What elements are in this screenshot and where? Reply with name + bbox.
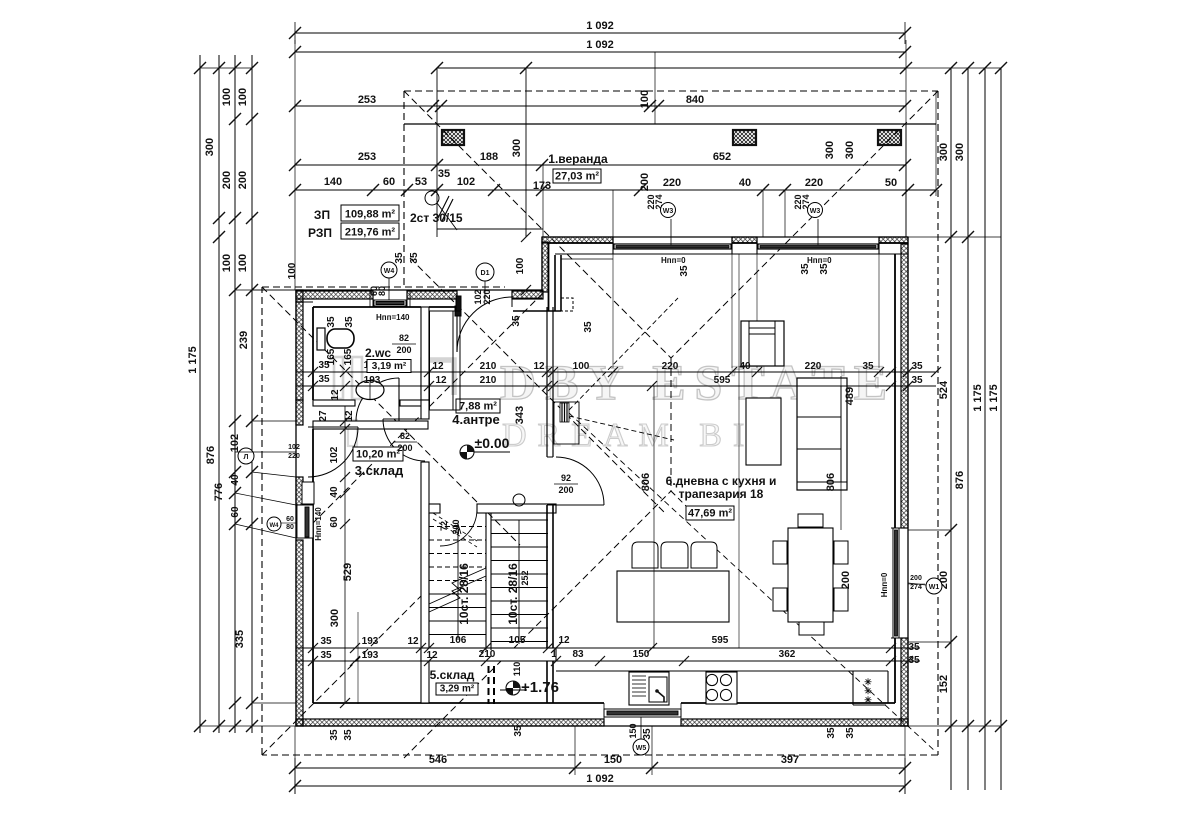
door post D1 bbox=[456, 296, 461, 311]
door size 92/200 living bbox=[554, 473, 578, 495]
svg-text:102: 102 bbox=[288, 444, 300, 451]
svg-text:150: 150 bbox=[604, 754, 622, 766]
svg-text:D1: D1 bbox=[481, 270, 490, 277]
svg-text:60: 60 bbox=[286, 516, 294, 523]
dim row 140/60/53/102/173/220/40/220/50 bbox=[289, 176, 942, 196]
svg-text:105: 105 bbox=[509, 635, 526, 646]
svg-text:150: 150 bbox=[633, 649, 650, 660]
svg-text:1 175: 1 175 bbox=[972, 384, 984, 412]
cooktop bbox=[706, 672, 737, 704]
svg-text:776: 776 bbox=[213, 483, 225, 501]
kitchen counter edge bbox=[556, 671, 888, 703]
dim row 253/840 bbox=[289, 90, 911, 191]
svg-text:1 175: 1 175 bbox=[988, 384, 1000, 412]
wall left exterior bbox=[296, 290, 313, 726]
svg-text:27: 27 bbox=[318, 410, 329, 422]
symbol W4 top bbox=[381, 262, 397, 278]
svg-text:200: 200 bbox=[221, 171, 233, 189]
svg-text:50: 50 bbox=[885, 177, 897, 189]
level mark 1.76 bbox=[500, 679, 559, 696]
label wc bbox=[365, 346, 411, 373]
svg-text:200: 200 bbox=[451, 519, 461, 534]
coffee table bbox=[746, 398, 781, 465]
interior dim row y372 bbox=[296, 360, 941, 377]
svg-text:220: 220 bbox=[663, 177, 681, 189]
svg-text:100: 100 bbox=[237, 88, 249, 106]
window W3 top left 220/274 bbox=[614, 244, 731, 249]
svg-text:92: 92 bbox=[561, 473, 571, 483]
label veranda bbox=[548, 152, 608, 183]
svg-text:300: 300 bbox=[329, 609, 341, 627]
interior vertical chain sklad bbox=[329, 406, 354, 708]
roof hip diagonal NW bbox=[404, 91, 671, 358]
door stairs dashed arc 72/200 bbox=[433, 509, 477, 547]
svg-text:4.антре: 4.антре bbox=[452, 412, 499, 427]
svg-text:200: 200 bbox=[396, 345, 411, 355]
svg-text:Hпп=0: Hпп=0 bbox=[880, 572, 889, 597]
svg-text:6.дневна с кухня и: 6.дневна с кухня и bbox=[666, 474, 777, 488]
svg-text:220: 220 bbox=[662, 361, 679, 372]
stair labels bbox=[439, 519, 530, 624]
svg-text:100: 100 bbox=[237, 254, 249, 272]
svg-text:80: 80 bbox=[377, 286, 387, 296]
svg-text:1 092: 1 092 bbox=[586, 773, 614, 785]
interior dim row y385 bbox=[296, 374, 936, 401]
dining table bbox=[788, 528, 833, 622]
dim row 253/188/652 bbox=[289, 151, 911, 180]
veranda column middle bbox=[733, 130, 756, 145]
svg-text:193: 193 bbox=[364, 375, 381, 386]
kitchen sink unit bbox=[629, 672, 669, 705]
svg-text:W4: W4 bbox=[384, 268, 395, 275]
svg-text:210: 210 bbox=[480, 375, 497, 386]
svg-text:220: 220 bbox=[805, 361, 822, 372]
left dim labels bbox=[187, 88, 250, 648]
svg-text:109,88 m²: 109,88 m² bbox=[345, 209, 395, 221]
svg-text:35: 35 bbox=[513, 725, 524, 737]
svg-text:102: 102 bbox=[329, 446, 340, 463]
svg-text:200: 200 bbox=[397, 443, 412, 453]
svg-text:1: 1 bbox=[551, 649, 557, 660]
svg-text:1.веранда: 1.веранда bbox=[548, 152, 608, 166]
svg-text:100: 100 bbox=[573, 361, 590, 372]
svg-text:193: 193 bbox=[362, 650, 379, 661]
rotated 35 labels bbox=[287, 194, 920, 740]
antre valley diagonal bbox=[410, 258, 665, 513]
svg-text:300: 300 bbox=[511, 139, 523, 157]
svg-text:3.склад: 3.склад bbox=[355, 463, 404, 478]
veranda column right bbox=[878, 130, 901, 145]
partition antre/living thin bbox=[547, 307, 553, 703]
svg-text:300: 300 bbox=[938, 143, 950, 161]
svg-text:252: 252 bbox=[520, 570, 530, 585]
staircase flights bbox=[429, 513, 548, 650]
svg-text:173: 173 bbox=[533, 180, 551, 192]
extension lines bbox=[200, 40, 1001, 794]
svg-text:7,88 m²: 7,88 m² bbox=[459, 401, 497, 413]
svg-text:150: 150 bbox=[628, 723, 638, 738]
dim row 546/150/397 bbox=[289, 754, 911, 774]
svg-text:35: 35 bbox=[908, 642, 920, 653]
flue dashed box top bbox=[561, 298, 573, 311]
svg-text:2.wc: 2.wc bbox=[365, 346, 391, 360]
svg-text:трапезария 18: трапезария 18 bbox=[679, 487, 764, 501]
symbol W4 left wall bbox=[267, 517, 281, 531]
svg-text:253: 253 bbox=[358, 94, 376, 106]
svg-text:806: 806 bbox=[640, 473, 652, 491]
wall sklad/stairs vertical bbox=[421, 462, 429, 703]
stair top circle symbol bbox=[513, 494, 525, 506]
symbol W1 right wall bbox=[926, 578, 942, 594]
svg-text:27,03 m²: 27,03 m² bbox=[555, 171, 599, 183]
svg-text:100: 100 bbox=[287, 262, 298, 279]
svg-text:165: 165 bbox=[343, 348, 354, 365]
svg-text:188: 188 bbox=[480, 151, 498, 163]
dim row y68 bbox=[431, 62, 912, 74]
svg-text:47,69 m²: 47,69 m² bbox=[688, 508, 732, 520]
svg-text:200: 200 bbox=[910, 575, 922, 582]
svg-text:40: 40 bbox=[230, 474, 241, 486]
svg-text:876: 876 bbox=[954, 471, 966, 489]
svg-text:102: 102 bbox=[229, 434, 241, 452]
island chair 3 bbox=[691, 542, 717, 568]
door wc arc bbox=[356, 378, 399, 421]
wall stairs bottom band bbox=[421, 648, 556, 661]
svg-text:100: 100 bbox=[515, 257, 526, 274]
toilet bbox=[317, 328, 354, 350]
svg-text:35: 35 bbox=[826, 727, 837, 739]
svg-text:40: 40 bbox=[329, 486, 340, 498]
svg-text:489: 489 bbox=[844, 387, 856, 405]
svg-text:ЗП: ЗП bbox=[314, 208, 330, 222]
svg-text:876: 876 bbox=[205, 446, 217, 464]
svg-text:806: 806 bbox=[825, 473, 837, 491]
roof hip arm SE short bbox=[671, 491, 700, 520]
svg-text:35: 35 bbox=[318, 374, 330, 385]
svg-text:✳: ✳ bbox=[864, 695, 872, 705]
label ZP RZP bbox=[308, 205, 463, 240]
svg-text:35: 35 bbox=[343, 729, 354, 741]
label antre bbox=[452, 399, 500, 427]
interior dim row y646 bbox=[296, 635, 920, 653]
svg-text:210: 210 bbox=[480, 361, 497, 372]
sklad5 dashed door opening bbox=[489, 666, 495, 704]
door size 82/200 wc bbox=[392, 333, 416, 355]
svg-text:100: 100 bbox=[221, 254, 233, 272]
left dim chain lines bbox=[194, 55, 258, 733]
dim row 1092 second bbox=[289, 39, 911, 58]
svg-text:35: 35 bbox=[845, 727, 856, 739]
svg-text:35: 35 bbox=[862, 361, 874, 372]
svg-text:210: 210 bbox=[479, 649, 496, 660]
svg-text:140: 140 bbox=[324, 176, 342, 188]
svg-text:12: 12 bbox=[432, 361, 444, 372]
svg-text:40: 40 bbox=[739, 177, 751, 189]
svg-text:35: 35 bbox=[911, 361, 923, 372]
interior dim row y659 bbox=[296, 649, 920, 666]
label sklad5 bbox=[430, 668, 478, 695]
label living bbox=[666, 474, 777, 520]
stair walk arrows bbox=[455, 520, 519, 644]
svg-text:W1: W1 bbox=[929, 584, 940, 591]
right dim chain lines bbox=[945, 62, 1007, 790]
svg-text:200: 200 bbox=[840, 571, 852, 589]
island chair 1 bbox=[632, 542, 658, 568]
island chair 2 bbox=[661, 542, 688, 568]
wall wc bottom A bbox=[313, 400, 429, 406]
svg-text:35: 35 bbox=[679, 265, 690, 277]
svg-text:83: 83 bbox=[572, 649, 584, 660]
window W1 right 200/274 bbox=[891, 528, 908, 638]
svg-text:Л: Л bbox=[244, 454, 249, 461]
window W4 wing top 60/80 bbox=[370, 291, 410, 307]
wall dim 35 porch bbox=[511, 315, 522, 327]
roof valley diagonal SW bbox=[404, 491, 671, 758]
svg-text:W3: W3 bbox=[810, 208, 821, 215]
svg-text:10ст. 28/16: 10ст. 28/16 bbox=[457, 563, 471, 625]
wing diagonal A bbox=[300, 293, 543, 536]
roof ridge bbox=[670, 358, 672, 491]
dining chairs bbox=[773, 514, 848, 635]
wall top main with window piers bbox=[542, 237, 908, 259]
svg-text:60: 60 bbox=[329, 516, 340, 528]
svg-text:3,19 m²: 3,19 m² bbox=[372, 361, 407, 372]
svg-text:35: 35 bbox=[320, 650, 332, 661]
svg-text:82: 82 bbox=[400, 431, 410, 441]
svg-text:+1.76: +1.76 bbox=[521, 679, 559, 696]
svg-text:102: 102 bbox=[457, 176, 475, 188]
svg-text:595: 595 bbox=[714, 375, 731, 386]
wall sklad top B bbox=[313, 421, 428, 429]
svg-text:335: 335 bbox=[234, 630, 246, 648]
symbol W3 left bbox=[661, 203, 676, 218]
wall antre/sklad vertical bbox=[421, 400, 429, 419]
roof corner hip SW bbox=[262, 588, 429, 755]
svg-text:12: 12 bbox=[330, 389, 341, 401]
svg-text:10ст. 28/16: 10ст. 28/16 bbox=[506, 563, 520, 625]
svg-text:35: 35 bbox=[344, 316, 355, 328]
svg-text:35: 35 bbox=[326, 316, 337, 328]
svg-text:165: 165 bbox=[326, 348, 337, 365]
svg-text:Hпп=0: Hпп=0 bbox=[807, 256, 832, 265]
stair break line bbox=[429, 568, 486, 612]
wall wc/antre vertical bbox=[421, 307, 429, 400]
symbol door left wall bbox=[238, 448, 254, 464]
svg-text:220: 220 bbox=[482, 289, 492, 304]
svg-text:РЗП: РЗП bbox=[308, 226, 332, 240]
svg-text:1 092: 1 092 bbox=[586, 20, 614, 32]
kitchen island table bbox=[617, 571, 729, 622]
svg-text:35: 35 bbox=[438, 168, 450, 180]
dim row 1092 top bbox=[289, 20, 911, 44]
wall right exterior bbox=[895, 237, 908, 726]
sofa bbox=[797, 378, 847, 490]
fan dashed lines at sliding door bbox=[569, 298, 936, 752]
svg-text:652: 652 bbox=[713, 151, 731, 163]
svg-text:152: 152 bbox=[938, 675, 950, 693]
svg-text:2ст 30/15: 2ст 30/15 bbox=[410, 211, 463, 225]
roof overhang dashed outline bbox=[262, 91, 938, 755]
door size 82/200 sklad bbox=[393, 431, 417, 453]
svg-text:35: 35 bbox=[409, 252, 420, 264]
svg-text:100: 100 bbox=[221, 88, 233, 106]
symbol W3 right bbox=[808, 203, 823, 218]
svg-text:12: 12 bbox=[533, 361, 545, 372]
svg-text:Hпп=140: Hпп=140 bbox=[314, 507, 323, 541]
svg-text:Hпп=140: Hпп=140 bbox=[376, 313, 410, 322]
svg-text:546: 546 bbox=[429, 754, 447, 766]
corner bar unit bbox=[853, 671, 886, 705]
door antre-living arc 92/200 bbox=[553, 457, 604, 505]
svg-text:±0.00: ±0.00 bbox=[475, 435, 510, 451]
svg-text:72: 72 bbox=[439, 521, 449, 531]
watermark logo bbox=[334, 357, 454, 446]
svg-text:220: 220 bbox=[805, 177, 823, 189]
symbol W5 bottom bbox=[633, 739, 649, 755]
svg-text:35: 35 bbox=[511, 315, 522, 327]
svg-text:343: 343 bbox=[514, 406, 526, 424]
svg-text:1 092: 1 092 bbox=[586, 39, 614, 51]
veranda column left bbox=[442, 130, 464, 145]
svg-text:300: 300 bbox=[204, 138, 216, 156]
wall stairs top bbox=[429, 504, 440, 513]
svg-text:300: 300 bbox=[954, 143, 966, 161]
svg-text:W5: W5 bbox=[636, 745, 647, 752]
interior vertical chain veranda 300 bbox=[511, 139, 856, 295]
svg-text:12: 12 bbox=[435, 375, 447, 386]
svg-text:12: 12 bbox=[558, 635, 570, 646]
svg-text:3,29 m²: 3,29 m² bbox=[440, 684, 475, 695]
svg-text:40: 40 bbox=[739, 361, 751, 372]
right dim labels bbox=[938, 143, 1000, 693]
svg-text:239: 239 bbox=[238, 331, 250, 349]
svg-text:362: 362 bbox=[779, 649, 796, 660]
door antre-sklad arc bbox=[383, 419, 425, 461]
window W5 bottom 150 bbox=[604, 703, 681, 719]
svg-text:10,20 m²: 10,20 m² bbox=[356, 449, 400, 461]
roof hip diagonal NE bbox=[671, 91, 938, 358]
svg-text:300: 300 bbox=[824, 141, 836, 159]
svg-text:80: 80 bbox=[286, 524, 294, 531]
svg-text:397: 397 bbox=[781, 754, 799, 766]
svg-text:35: 35 bbox=[911, 375, 923, 386]
window W4 left wall glazing bbox=[296, 505, 313, 538]
svg-text:1 175: 1 175 bbox=[187, 346, 199, 374]
symbol D1 bbox=[476, 263, 494, 281]
window W3 top right 220/274 bbox=[758, 244, 878, 249]
svg-text:12: 12 bbox=[407, 636, 419, 647]
svg-text:219,76 m²: 219,76 m² bbox=[345, 227, 395, 239]
wing diagonal B bbox=[262, 287, 520, 545]
svg-text:524: 524 bbox=[938, 380, 950, 399]
cabinet with grille bbox=[554, 402, 579, 444]
veranda slab edge bbox=[404, 124, 936, 237]
svg-text:300: 300 bbox=[844, 141, 856, 159]
svg-text:Hпп=0: Hпп=0 bbox=[661, 256, 686, 265]
svg-text:110: 110 bbox=[512, 662, 522, 677]
svg-text:193: 193 bbox=[362, 636, 379, 647]
closet antre bbox=[430, 306, 462, 410]
svg-text:35: 35 bbox=[320, 636, 332, 647]
svg-text:200: 200 bbox=[237, 171, 249, 189]
svg-text:35: 35 bbox=[329, 729, 340, 741]
wall bottom exterior bbox=[296, 703, 908, 726]
svg-text:35: 35 bbox=[908, 655, 920, 666]
svg-text:274: 274 bbox=[910, 584, 922, 591]
svg-text:60: 60 bbox=[230, 506, 241, 518]
svg-text:W4: W4 bbox=[270, 523, 280, 529]
level mark 0.00 bbox=[460, 435, 510, 459]
svg-text:W3: W3 bbox=[663, 208, 674, 215]
svg-text:595: 595 bbox=[712, 635, 729, 646]
svg-text:35: 35 bbox=[583, 321, 594, 333]
svg-text:220: 220 bbox=[288, 453, 300, 460]
svg-text:12: 12 bbox=[426, 650, 438, 661]
svg-text:100: 100 bbox=[639, 90, 651, 108]
svg-text:35: 35 bbox=[642, 728, 653, 740]
svg-text:60: 60 bbox=[383, 176, 395, 188]
wall porch vertical bbox=[513, 237, 561, 311]
dim row 1092 bottom bbox=[289, 758, 911, 794]
svg-text:12: 12 bbox=[344, 410, 355, 422]
door D1 entry arc bbox=[457, 293, 512, 352]
svg-text:200: 200 bbox=[558, 485, 573, 495]
wc sink bbox=[356, 381, 384, 400]
wall wing top bbox=[296, 290, 543, 307]
radiator left wall bbox=[302, 482, 314, 504]
interior verticals living bbox=[514, 376, 856, 648]
svg-text:5.склад: 5.склад bbox=[430, 668, 475, 682]
svg-text:253: 253 bbox=[358, 151, 376, 163]
label sklad3 bbox=[353, 447, 404, 478]
door side-entrance left wall arc bbox=[308, 427, 358, 477]
svg-text:35: 35 bbox=[394, 252, 405, 264]
svg-text:53: 53 bbox=[415, 176, 427, 188]
symbol 2ct circle bbox=[425, 191, 439, 205]
svg-text:82: 82 bbox=[399, 333, 409, 343]
svg-text:106: 106 bbox=[450, 635, 467, 646]
armchair bbox=[741, 321, 784, 366]
svg-text:529: 529 bbox=[342, 563, 354, 581]
svg-text:840: 840 bbox=[686, 94, 704, 106]
